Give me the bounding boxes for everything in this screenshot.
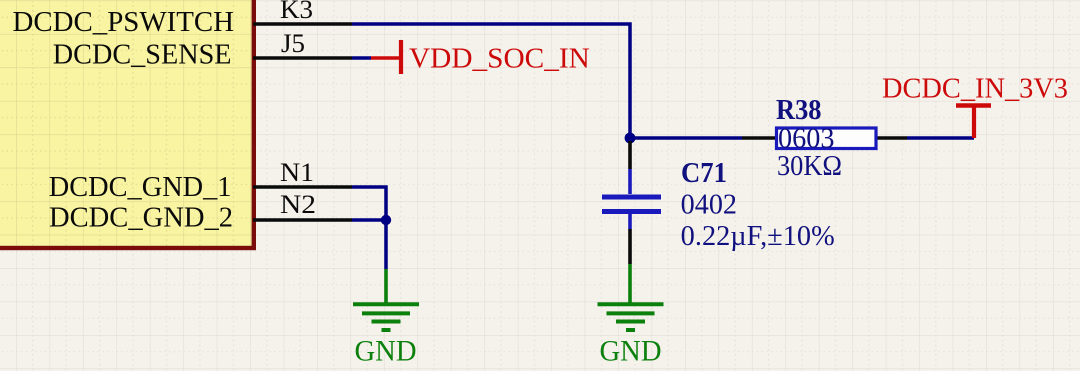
- ground GND (left): [353, 269, 419, 368]
- svg-text:K3: K3: [280, 0, 313, 24]
- svg-text:DCDC_GND_2: DCDC_GND_2: [49, 203, 233, 234]
- resistor R38: [742, 128, 907, 149]
- wire resistor to power port: [907, 136, 974, 140]
- junction at N2: [381, 215, 391, 225]
- wire N1 net (to N2 junction): [352, 187, 386, 220]
- junction node A (main net): [625, 133, 636, 144]
- IC block (part body, pins K3/J5/N1/N2): [0, 0, 254, 248]
- svg-text:0.22µF,±10%: 0.22µF,±10%: [681, 221, 835, 252]
- wire junction to resistor: [630, 136, 742, 140]
- capacitor C71: [602, 141, 661, 264]
- svg-text:0603: 0603: [778, 124, 835, 155]
- wire N2 junction down to ground: [384, 220, 388, 269]
- pin N1: [253, 185, 352, 189]
- svg-text:GND: GND: [355, 335, 417, 368]
- pin J5: [253, 56, 352, 60]
- wire K3 net (horizontal then down to junction): [352, 24, 630, 140]
- ground GND (right): [598, 264, 664, 368]
- svg-text:GND: GND: [600, 335, 662, 368]
- svg-text:DCDC_SENSE: DCDC_SENSE: [53, 40, 232, 71]
- svg-text:N1: N1: [280, 158, 314, 187]
- svg-text:DCDC_GND_1: DCDC_GND_1: [49, 172, 232, 203]
- svg-text:DCDC_PSWITCH: DCDC_PSWITCH: [13, 7, 235, 38]
- svg-text:R38: R38: [776, 95, 822, 126]
- svg-text:J5: J5: [281, 29, 305, 58]
- svg-text:30KΩ: 30KΩ: [777, 151, 842, 182]
- svg-text:C71: C71: [681, 158, 727, 189]
- wire J5 stub: [352, 56, 371, 60]
- pin K3: [253, 22, 352, 26]
- wire N2 stub: [352, 218, 386, 222]
- power port DCDC_IN_3V3: [882, 73, 1068, 139]
- svg-text:N2: N2: [280, 190, 316, 219]
- pin N2: [253, 218, 352, 222]
- svg-text:0402: 0402: [681, 190, 737, 221]
- power port VDD_SOC_IN: [371, 40, 590, 75]
- svg-text:VDD_SOC_IN: VDD_SOC_IN: [409, 43, 590, 75]
- svg-text:DCDC_IN_3V3: DCDC_IN_3V3: [882, 73, 1068, 105]
